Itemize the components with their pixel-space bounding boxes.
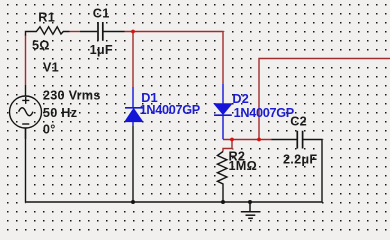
resistor R2: [217, 152, 227, 203]
svg-text:C1: C1: [93, 6, 110, 20]
node: ground stem junction: [248, 200, 252, 204]
svg-text:5Ω: 5Ω: [32, 39, 50, 53]
node: junction C2 branch: [257, 138, 261, 142]
svg-text:1μF: 1μF: [90, 43, 113, 57]
svg-text:V1: V1: [43, 61, 59, 75]
svg-text:1MΩ: 1MΩ: [229, 159, 258, 173]
wire: top red segment R1-C1: [70, 31, 81, 33]
wire: bottom ground rail: [26, 128, 323, 202]
svg-text:50 Hz: 50 Hz: [43, 106, 77, 120]
node: junction at C1/D1: [131, 30, 135, 34]
diode D2: [214, 84, 232, 139]
capacitor C1: [80, 22, 125, 41]
wire: top-right red exit wire: [259, 59, 390, 140]
svg-text:1N4007GP: 1N4007GP: [140, 103, 201, 117]
wire: middle red net D2/R2/C2: [223, 139, 272, 141]
svg-text:R1: R1: [38, 11, 55, 25]
svg-text:0°: 0°: [43, 122, 56, 136]
wire underlays (mask grid dots beneath wires): [26, 32, 390, 212]
ground: [241, 202, 260, 218]
wire: jog down to R2: [223, 140, 232, 152]
svg-text:2.2μF: 2.2μF: [283, 153, 317, 167]
svg-text:D2: D2: [232, 92, 249, 106]
node: D1/ground rail junction: [131, 200, 135, 204]
svg-text:230 Vrms: 230 Vrms: [43, 89, 101, 103]
diode D1: [125, 87, 143, 126]
node: R2/ground rail junction: [221, 200, 225, 204]
wire: D1 anode down to ground rail: [132, 126, 134, 202]
AC source V1: [10, 85, 42, 139]
wire: red vertical to D1: [132, 32, 134, 88]
wire: top red C1 to D2 corner: [125, 32, 224, 85]
svg-text:1N4007GP: 1N4007GP: [234, 106, 295, 120]
resistor R1: [26, 27, 70, 36]
svg-text:C2: C2: [290, 114, 307, 128]
wire: left vertical red (V1 top to R1 corner): [25, 35, 27, 86]
node: junction D2/R2: [230, 138, 234, 142]
capacitor C2: [272, 131, 323, 202]
